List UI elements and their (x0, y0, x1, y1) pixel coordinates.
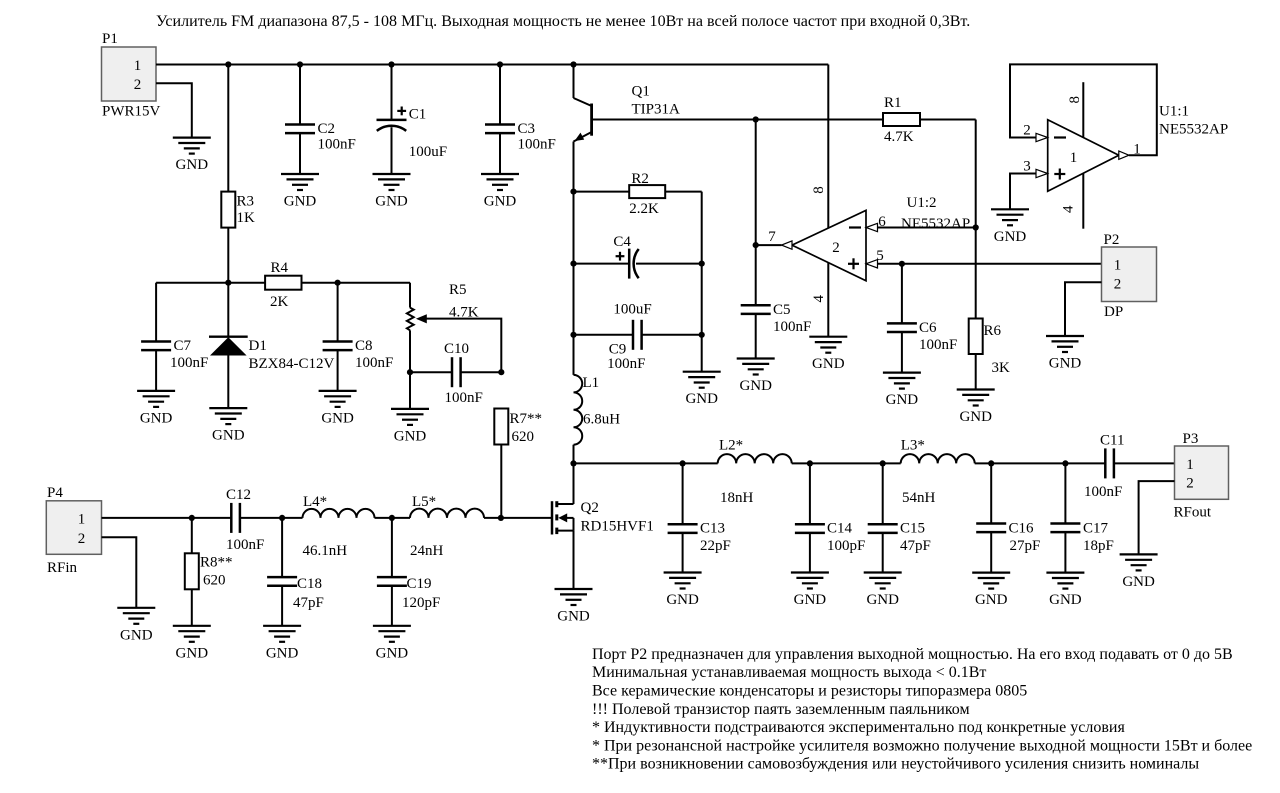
svg-text:2: 2 (134, 77, 142, 93)
op-amp U1:2 pin6 wire (866, 223, 976, 231)
svg-text:L2*: L2* (719, 438, 743, 454)
svg-text:TIP31A: TIP31A (632, 102, 681, 118)
ground GND at C3 (481, 174, 519, 210)
svg-text:!!! Полевой транзистор паять з: !!! Полевой транзистор паять заземленным… (592, 701, 970, 718)
svg-text:GND: GND (812, 356, 845, 372)
svg-text:GND: GND (739, 378, 772, 394)
svg-text:C10: C10 (444, 341, 469, 357)
svg-text:4: 4 (1061, 205, 1077, 213)
ground GND at C8 (319, 391, 357, 427)
title text (156, 13, 970, 30)
wire U1:2 pin8 supply drop (827, 65, 829, 229)
svg-text:GND: GND (1049, 592, 1082, 608)
svg-text:U1:1: U1:1 (1159, 104, 1189, 120)
svg-text:GND: GND (375, 194, 408, 210)
svg-text:1: 1 (1186, 457, 1194, 473)
svg-text:GND: GND (284, 194, 317, 210)
connector P2 DP (1102, 232, 1157, 320)
svg-text:GND: GND (1049, 356, 1082, 372)
svg-text:C11: C11 (1100, 433, 1124, 449)
svg-text:C2: C2 (318, 121, 336, 137)
svg-text:C17: C17 (1083, 521, 1109, 537)
svg-text:GND: GND (666, 592, 699, 608)
svg-text:27pF: 27pF (1010, 538, 1041, 554)
svg-text:* Индуктивности подстраиваются: * Индуктивности подстраиваются экспериме… (592, 719, 1125, 736)
svg-text:U1:2: U1:2 (907, 195, 937, 211)
svg-text:2: 2 (1186, 476, 1194, 492)
svg-text:GND: GND (886, 392, 919, 408)
svg-text:18nH: 18nH (720, 490, 754, 506)
svg-text:22pF: 22pF (700, 538, 731, 554)
svg-text:Порт P2 предназначен для управ: Порт P2 предназначен для управления выхо… (592, 646, 1233, 663)
op-amp U1:2 pin4 line (827, 262, 829, 336)
svg-text:1: 1 (134, 58, 142, 74)
ground GND at C17 (1046, 573, 1084, 609)
svg-text:L3*: L3* (901, 438, 925, 454)
svg-text:L5*: L5* (412, 494, 436, 510)
svg-text:PWR15V: PWR15V (102, 104, 161, 120)
svg-text:DP: DP (1104, 304, 1123, 320)
ground GND at P2 (1046, 336, 1084, 372)
svg-text:L4*: L4* (303, 494, 327, 510)
svg-text:1: 1 (1114, 258, 1122, 274)
svg-text:100uF: 100uF (409, 144, 447, 160)
svg-text:2: 2 (1114, 277, 1122, 293)
svg-text:C1: C1 (409, 107, 427, 123)
capacitor C8 (323, 283, 394, 391)
op-amp U1:1 NE5532AP (1023, 96, 1228, 213)
connector P1 PWR15V (102, 31, 161, 120)
capacitor C3 (485, 65, 556, 175)
svg-text:GND: GND (1122, 574, 1155, 590)
svg-text:6.8uH: 6.8uH (583, 412, 620, 428)
svg-text:C15: C15 (900, 521, 925, 537)
ground GND at R6 (957, 390, 995, 426)
svg-text:100nF: 100nF (445, 390, 483, 406)
svg-text:GND: GND (394, 428, 427, 444)
capacitor C4 polarized (570, 234, 704, 318)
wire R5 bottom to ground (407, 369, 413, 409)
ground GND at R5 (391, 409, 429, 445)
svg-text:100nF: 100nF (518, 137, 556, 153)
capacitor C10 (410, 341, 504, 406)
svg-text:R3: R3 (237, 194, 255, 210)
ground GND at D1 (209, 408, 247, 444)
svg-text:GND: GND (959, 409, 992, 425)
ground GND at C6 (883, 373, 921, 409)
svg-text:P3: P3 (1183, 431, 1199, 447)
svg-text:* При резонансной настройке ус: * При резонансной настройке усилителя во… (592, 737, 1252, 754)
svg-text:3K: 3K (992, 360, 1011, 376)
svg-text:1K: 1K (237, 210, 256, 226)
svg-text:100nF: 100nF (226, 537, 264, 553)
capacitor C18 (267, 518, 324, 626)
svg-text:100nF: 100nF (1084, 484, 1122, 500)
capacitor C9 (570, 320, 704, 372)
potentiometer R5 (407, 282, 501, 372)
op-amp U1:2 pin5 wire (866, 260, 1102, 268)
svg-text:GND: GND (212, 428, 245, 444)
ground GND at U1:2 pin4 (809, 337, 847, 373)
capacitor C17 (1050, 463, 1113, 572)
svg-text:54nH: 54nH (902, 490, 936, 506)
svg-text:R1: R1 (884, 95, 902, 111)
svg-text:C14: C14 (827, 521, 853, 537)
svg-text:C6: C6 (919, 320, 937, 336)
svg-text:47pF: 47pF (293, 595, 324, 611)
svg-text:R6: R6 (984, 323, 1002, 339)
svg-text:GND: GND (140, 410, 173, 426)
wire +15V rail (156, 64, 828, 66)
svg-text:2: 2 (78, 531, 86, 547)
node R3 bottom junction (225, 280, 231, 286)
op-amp U1:2 output pin7 wire (753, 241, 792, 249)
ground GND at C19 (373, 626, 411, 662)
svg-text:C18: C18 (297, 576, 322, 592)
inductor L2 (718, 438, 792, 507)
inductor L3 (901, 438, 975, 507)
capacitor C1 polarized (377, 65, 448, 175)
capacitor C16 (976, 463, 1040, 572)
svg-text:7: 7 (768, 229, 776, 245)
capacitor C19 (377, 518, 440, 626)
svg-text:GND: GND (975, 592, 1008, 608)
wire P4 pin2 to ground (102, 537, 137, 608)
op-amp U1:1 pin4 line (1082, 173, 1084, 229)
svg-text:4.7K: 4.7K (884, 129, 914, 145)
svg-text:RFout: RFout (1174, 505, 1212, 521)
notes text block (592, 646, 1252, 773)
svg-text:C5: C5 (773, 302, 791, 318)
svg-text:Усилитель FM диапазона 87,5 -: Усилитель FM диапазона 87,5 - 108 МГц. В… (156, 13, 970, 30)
capacitor C11 (1084, 433, 1175, 501)
svg-text:C3: C3 (518, 121, 536, 137)
op-amp U1:1 pin8 line (1082, 82, 1084, 138)
svg-text:1: 1 (1070, 150, 1078, 166)
node Q1 emitter junction (570, 189, 576, 195)
svg-text:GND: GND (484, 194, 517, 210)
capacitor C7 (141, 283, 208, 391)
resistor R2 (574, 171, 702, 217)
capacitor C6 (887, 264, 957, 373)
svg-text:C4: C4 (613, 234, 631, 250)
ground GND at C14 (791, 573, 829, 609)
ground GND at Q2 source (555, 589, 593, 625)
ground GND at C15 (864, 573, 902, 609)
svg-text:GND: GND (321, 410, 354, 426)
svg-text:18pF: 18pF (1083, 538, 1114, 554)
svg-text:Q1: Q1 (632, 84, 650, 100)
svg-text:C16: C16 (1009, 521, 1035, 537)
svg-text:Q2: Q2 (581, 500, 599, 516)
svg-text:GND: GND (266, 645, 299, 661)
svg-text:**При возникновении самовозбуж: **При возникновении самовозбуждения или … (592, 756, 1199, 773)
svg-text:100nF: 100nF (607, 356, 645, 372)
svg-text:NE5532AP: NE5532AP (1159, 122, 1228, 138)
wire output rail (570, 460, 717, 466)
connector P3 RFout (1174, 431, 1229, 521)
ground GND at C13 (664, 573, 702, 609)
ground GND at R8 (173, 626, 211, 662)
capacitor C5 (741, 245, 812, 358)
svg-text:Все керамические конденсаторы: Все керамические конденсаторы и резистор… (592, 682, 1027, 699)
ground GND at C18 (263, 626, 301, 662)
wire RF input (102, 515, 232, 521)
svg-text:620: 620 (203, 573, 226, 589)
capacitor C13 (668, 463, 731, 572)
svg-text:100uF: 100uF (613, 302, 651, 318)
inductor L5 (410, 494, 552, 559)
wire bias row (156, 282, 265, 284)
ground GND at C1 (373, 174, 411, 210)
svg-text:GND: GND (376, 645, 409, 661)
svg-text:P2: P2 (1104, 232, 1120, 248)
svg-text:47pF: 47pF (900, 538, 931, 554)
diode D1 BZX84-C12V zener (209, 283, 335, 408)
svg-text:100pF: 100pF (827, 538, 865, 554)
wire pin7 node to base wire (755, 120, 757, 246)
svg-text:C7: C7 (174, 338, 192, 354)
svg-text:GND: GND (994, 229, 1027, 245)
svg-text:100nF: 100nF (355, 355, 393, 371)
svg-text:R8**: R8** (200, 555, 233, 571)
wire P2 pin2 to ground (1065, 282, 1102, 336)
capacitor C2 (285, 65, 356, 175)
inductor L4 (303, 494, 411, 559)
svg-text:BZX84-C12V: BZX84-C12V (249, 356, 335, 372)
svg-text:C8: C8 (355, 338, 373, 354)
svg-text:100nF: 100nF (318, 137, 356, 153)
svg-text:R4: R4 (271, 260, 289, 276)
svg-text:120pF: 120pF (402, 595, 440, 611)
svg-text:R5: R5 (449, 282, 467, 298)
resistor R1 (883, 95, 976, 145)
transistor Q1 TIP31A (574, 65, 681, 192)
ground GND at U1:1 pin3 (991, 209, 1029, 245)
svg-text:2K: 2K (270, 294, 289, 310)
svg-text:2.2K: 2.2K (629, 201, 659, 217)
svg-text:RFin: RFin (47, 560, 78, 576)
wire Q1 base (592, 116, 883, 122)
svg-text:GND: GND (794, 592, 827, 608)
connector P4 RFin (46, 485, 101, 576)
ground GND at C4/C9 (683, 372, 721, 408)
ground GND at C5 (737, 359, 775, 395)
svg-text:GND: GND (685, 391, 718, 407)
svg-text:24nH: 24nH (410, 543, 444, 559)
resistor R6 (969, 319, 1010, 390)
ground GND at P4 (117, 608, 155, 644)
svg-text:100nF: 100nF (773, 319, 811, 335)
wire P1 pin2 to ground (156, 83, 192, 137)
svg-text:P4: P4 (47, 485, 63, 501)
svg-text:NE5532AP: NE5532AP (901, 216, 970, 232)
svg-text:100nF: 100nF (170, 355, 208, 371)
svg-text:4.7K: 4.7K (449, 305, 479, 321)
ground GND at P3 (1120, 554, 1158, 590)
wire between L2 and L3 (792, 460, 901, 466)
svg-text:C12: C12 (226, 487, 251, 503)
capacitor C15 (868, 463, 931, 572)
capacitor C14 (795, 463, 865, 572)
transistor Q2 RD15HVF1 (552, 463, 654, 589)
svg-text:GND: GND (557, 609, 590, 625)
resistor R3 (221, 65, 255, 283)
ground GND at C2 (281, 174, 319, 210)
ground GND at P1 (173, 138, 211, 174)
svg-text:C19: C19 (407, 576, 432, 592)
svg-text:C13: C13 (700, 521, 725, 537)
svg-text:GND: GND (866, 592, 899, 608)
svg-text:1: 1 (78, 512, 86, 528)
capacitor C12 (226, 487, 303, 553)
svg-text:GND: GND (176, 157, 209, 173)
svg-text:P1: P1 (102, 31, 118, 47)
svg-text:L1: L1 (583, 375, 600, 391)
svg-text:GND: GND (176, 645, 209, 661)
inductor L1 (574, 192, 621, 464)
op-amp U1:1 feedback loop wire (1010, 64, 1157, 159)
svg-text:2: 2 (832, 240, 840, 256)
svg-text:2: 2 (1023, 122, 1031, 138)
ground GND at C16 (972, 573, 1010, 609)
op-amp U1:1 pin3 wire to ground (1010, 169, 1048, 209)
svg-text:100nF: 100nF (919, 337, 957, 353)
svg-text:4: 4 (811, 295, 827, 303)
wire P3 pin2 to ground (1139, 481, 1175, 554)
svg-text:46.1nH: 46.1nH (303, 543, 348, 559)
svg-text:GND: GND (120, 627, 153, 643)
resistor R4 (265, 260, 410, 310)
op-amp U1:2 NE5532AP (768, 186, 970, 302)
node rail junctions (225, 61, 576, 67)
wire L3 to C11 (975, 460, 1106, 466)
wire R2 right branch down (701, 192, 703, 372)
svg-text:R2: R2 (631, 171, 649, 187)
svg-text:RD15HVF1: RD15HVF1 (581, 519, 654, 535)
svg-text:Минимальная устанавливаемая мо: Минимальная устанавливаемая мощность вых… (592, 664, 986, 681)
svg-text:8: 8 (811, 186, 827, 194)
svg-text:3: 3 (1023, 158, 1031, 174)
svg-text:R7**: R7** (510, 411, 543, 427)
svg-text:8: 8 (1067, 96, 1083, 104)
resistor R8 (185, 518, 233, 626)
svg-text:620: 620 (512, 429, 535, 445)
wire R1 to pin6 node (973, 120, 979, 319)
ground GND at C7 (137, 391, 175, 427)
resistor R7 (494, 409, 542, 518)
svg-text:D1: D1 (249, 338, 267, 354)
